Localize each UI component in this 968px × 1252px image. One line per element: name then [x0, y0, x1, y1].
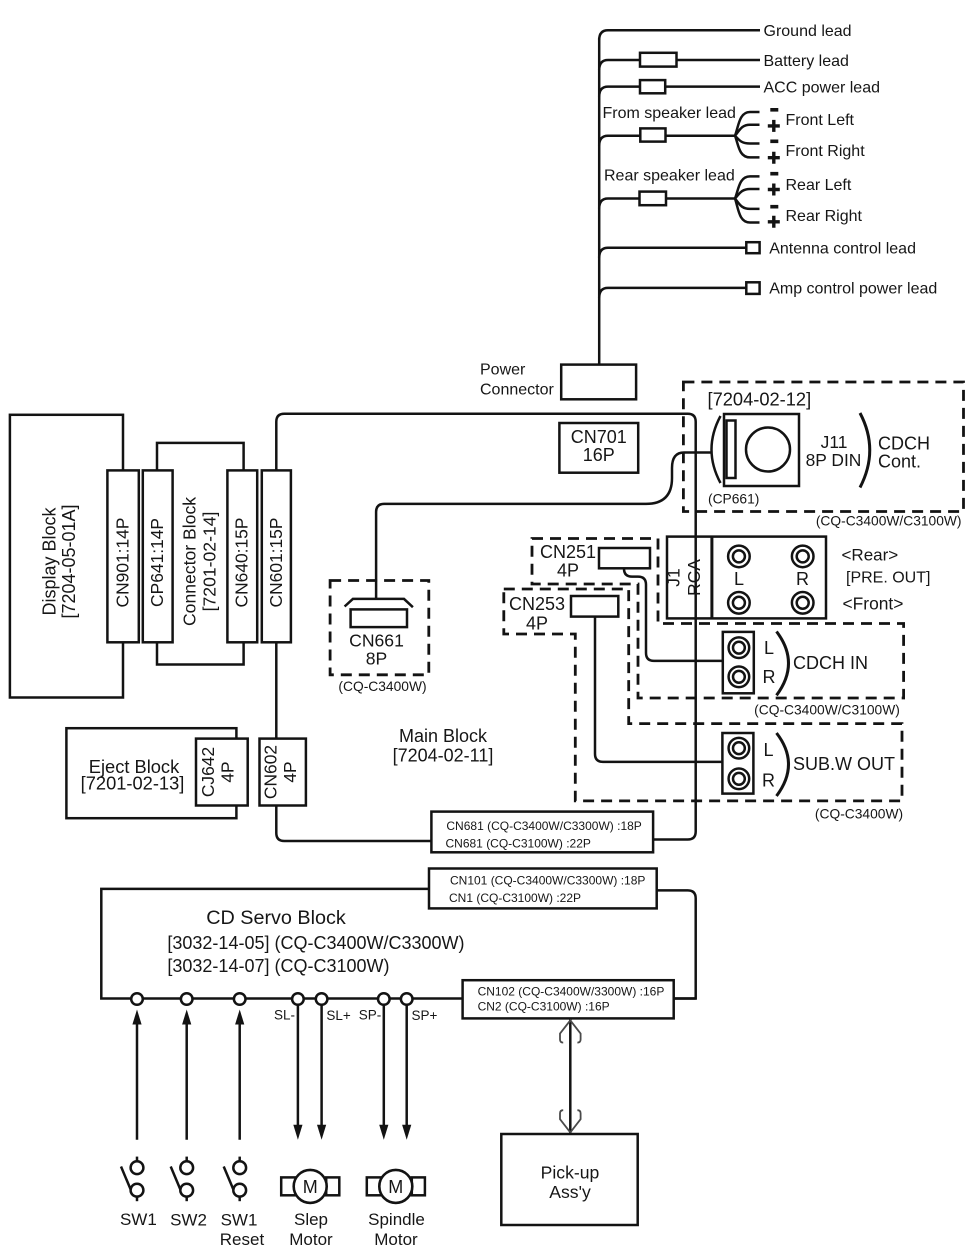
- switch SW2: [171, 1157, 193, 1202]
- svg-text:Battery lead: Battery lead: [764, 53, 849, 70]
- motor Spindle Motor: [367, 1177, 381, 1195]
- svg-text:[7201-02-13]: [7201-02-13]: [81, 773, 185, 794]
- svg-text:SP-: SP-: [359, 1007, 382, 1022]
- connector RCA jack front L: [728, 592, 750, 614]
- wire antenna control lead: [599, 248, 746, 258]
- svg-text:SW1: SW1: [221, 1210, 258, 1229]
- block Connector Block: [157, 443, 244, 665]
- svg-text:J1: J1: [664, 568, 684, 586]
- wire SL- arrow down: [297, 1005, 300, 1127]
- svg-text:Ground lead: Ground lead: [764, 23, 852, 40]
- connector CDCH IN jack R: [729, 667, 750, 688]
- svg-text:(CQ-C3400W/C3100W): (CQ-C3400W/C3100W): [816, 514, 962, 529]
- wire from speaker lead: [599, 136, 735, 146]
- svg-text:SW2: SW2: [170, 1210, 207, 1229]
- fuse battery lead: [640, 53, 677, 67]
- block Pick-up Ass'y: [501, 1134, 637, 1225]
- svg-text:16P: 16P: [583, 445, 615, 465]
- connector CN602 4P: [260, 739, 306, 806]
- svg-text:<Front>: <Front>: [843, 593, 904, 613]
- connector CDCH IN body: [723, 632, 754, 693]
- wire front fan branch 1: [735, 112, 760, 136]
- svg-text:CN1 (CQ-C3100W) :22P: CN1 (CQ-C3100W) :22P: [449, 891, 581, 905]
- svg-text:Antenna control lead: Antenna control lead: [769, 241, 916, 258]
- svg-text:CP641:14P: CP641:14P: [147, 518, 167, 607]
- wire ground lead: [599, 30, 760, 40]
- svg-text:CN661: CN661: [349, 631, 404, 651]
- connector amp control square: [746, 282, 759, 294]
- wire SL+ arrow down: [320, 1005, 323, 1127]
- wire J1 divider: [710, 537, 713, 619]
- svg-text:CN640:15P: CN640:15P: [232, 518, 252, 608]
- block CD Servo Block outline: [101, 889, 695, 999]
- svg-text:CN901:14P: CN901:14P: [113, 518, 133, 608]
- svg-text:Rear Left: Rear Left: [786, 177, 852, 194]
- plus mark front right: [768, 152, 780, 164]
- connector CJ642 4P: [196, 739, 248, 806]
- wire SW1 arrow up: [136, 1022, 139, 1140]
- svg-text:CDCH IN: CDCH IN: [793, 653, 868, 673]
- block 7204-02-12 dashed box: [683, 382, 963, 512]
- svg-text:8P DIN: 8P DIN: [806, 450, 862, 470]
- wire SW2 arrow up: [185, 1022, 188, 1140]
- plus mark rear left: [768, 184, 780, 196]
- connector CN661 hat symbol: [345, 599, 413, 607]
- svg-text:CN2 (CQ-C3100W) :16P: CN2 (CQ-C3100W) :16P: [478, 999, 610, 1013]
- arrowhead double top: [560, 1020, 581, 1042]
- svg-text:CN701: CN701: [571, 427, 627, 447]
- svg-text:CN601:15P: CN601:15P: [266, 518, 286, 608]
- svg-text:Display Block: Display Block: [40, 506, 60, 615]
- svg-text:<Rear>: <Rear>: [842, 546, 899, 565]
- switch SW1: [121, 1157, 143, 1202]
- svg-text:Motor: Motor: [289, 1230, 333, 1249]
- connector J11 left parenthesis: [712, 416, 721, 483]
- svg-text:From speaker lead: From speaker lead: [603, 105, 736, 122]
- wire vertical through J1 box: [694, 537, 697, 619]
- connector CP641:14P: [143, 470, 173, 642]
- switch SW1 Reset: [224, 1157, 246, 1202]
- fuse rear speaker lead: [640, 192, 667, 206]
- wire CN102 to Pick-up shaft: [569, 1020, 572, 1134]
- minus mark rear left: [770, 172, 778, 176]
- block Eject Block: [66, 728, 236, 818]
- svg-text:4P: 4P: [526, 614, 548, 634]
- wire CN602 to CN681: [276, 806, 431, 842]
- bracket right paren J11: [860, 413, 870, 488]
- svg-text:CDCH: CDCH: [878, 433, 930, 453]
- svg-text:SUB.W OUT: SUB.W OUT: [793, 754, 895, 774]
- connector CN661 body: [351, 609, 407, 627]
- connector CN640:15P: [227, 470, 257, 642]
- svg-text:SL-: SL-: [274, 1007, 295, 1022]
- arrowhead double bottom: [560, 1110, 581, 1132]
- svg-text:[7204-05-01A]: [7204-05-01A]: [59, 504, 79, 618]
- connector CN601:15P: [262, 470, 291, 642]
- node pin circles on servo bottom edge: [131, 993, 143, 1005]
- connector CN901:14P: [107, 470, 138, 642]
- svg-text:Pick-up: Pick-up: [541, 1163, 600, 1183]
- motor Slep Motor: [281, 1177, 295, 1195]
- wire front fan branch 4: [735, 136, 760, 158]
- wire CN101 right to servo right edge: [657, 890, 696, 998]
- wire power bus vertical: [598, 38, 601, 365]
- block CN251 + CDCH IN dashed outline: [532, 539, 904, 699]
- wire amp control power lead: [599, 288, 746, 298]
- svg-text:4P: 4P: [280, 761, 300, 782]
- svg-text:L: L: [734, 569, 744, 589]
- svg-text:Reset: Reset: [220, 1230, 265, 1249]
- svg-text:SP+: SP+: [411, 1008, 437, 1023]
- svg-text:CN102 (CQ-C3400W/3300W) :16P: CN102 (CQ-C3400W/3300W) :16P: [478, 985, 665, 999]
- svg-text:Connector: Connector: [480, 382, 554, 399]
- svg-text:Connector Block: Connector Block: [180, 497, 200, 626]
- connector CN102 box: [463, 980, 674, 1018]
- connector SUB.W OUT body: [722, 733, 753, 794]
- svg-text:Amp control power lead: Amp control power lead: [769, 281, 937, 298]
- connector SUB.W OUT jack L: [729, 738, 750, 759]
- svg-text:Cont.: Cont.: [878, 452, 921, 472]
- wire rear fan branch 1: [735, 176, 760, 198]
- connector J11 circle: [746, 428, 790, 472]
- svg-text:CD Servo Block: CD Servo Block: [206, 907, 346, 929]
- bracket CDCH IN paren: [777, 632, 789, 696]
- connector antenna control square: [746, 242, 759, 253]
- svg-text:Front Right: Front Right: [786, 143, 866, 160]
- wire SW1 Reset arrow up: [238, 1022, 241, 1140]
- connector SUB.W OUT jack R: [729, 769, 750, 790]
- minus mark front right: [770, 140, 778, 144]
- svg-text:[3032-14-07] (CQ-C3100W): [3032-14-07] (CQ-C3100W): [167, 956, 389, 976]
- fuse from speaker lead: [640, 128, 665, 141]
- svg-text:L: L: [764, 638, 774, 658]
- svg-text:(CQ-C3400W): (CQ-C3400W): [815, 807, 903, 822]
- minus mark front left: [770, 108, 778, 112]
- svg-text:SW1: SW1: [120, 1210, 157, 1229]
- svg-text:Main Block: Main Block: [399, 726, 488, 746]
- connector J1 RCA box: [667, 537, 826, 619]
- svg-text:Slep: Slep: [294, 1210, 328, 1229]
- svg-text:ACC power lead: ACC power lead: [764, 79, 881, 96]
- svg-text:R: R: [796, 569, 809, 589]
- svg-text:R: R: [763, 667, 776, 687]
- svg-text:[7204-02-11]: [7204-02-11]: [393, 746, 494, 766]
- svg-text:SL+: SL+: [326, 1008, 351, 1023]
- wire rear speaker lead: [599, 199, 735, 209]
- svg-text:(CQ-C3400W/C3100W): (CQ-C3400W/C3100W): [754, 703, 900, 718]
- svg-text:CN602: CN602: [261, 745, 281, 799]
- wire CN661 to J11 connector: [376, 453, 711, 599]
- svg-text:[7201-02-14]: [7201-02-14]: [200, 512, 220, 612]
- svg-text:Ass'y: Ass'y: [549, 1182, 591, 1202]
- svg-text:Front Left: Front Left: [786, 112, 855, 129]
- fuse ACC lead: [640, 80, 665, 93]
- connector CDCH IN jack L: [729, 637, 750, 658]
- wire front fan branch 3: [735, 136, 760, 144]
- connector RCA jack rear L: [728, 546, 750, 568]
- svg-text:RCA: RCA: [684, 559, 704, 596]
- svg-text:CN681 (CQ-C3100W) :22P: CN681 (CQ-C3100W) :22P: [446, 837, 591, 851]
- wire ACC power lead: [599, 87, 760, 97]
- svg-text:L: L: [763, 740, 773, 760]
- block Display Block: [10, 415, 123, 698]
- svg-text:4P: 4P: [218, 761, 238, 782]
- svg-text:Motor: Motor: [374, 1230, 418, 1249]
- wire CN601 to CN602: [275, 642, 278, 738]
- svg-text:[3032-14-05] (CQ-C3400W/C3300W: [3032-14-05] (CQ-C3400W/C3300W): [167, 933, 464, 953]
- connector power connector box: [561, 365, 636, 400]
- wire rear fan branch 4: [735, 199, 760, 223]
- svg-text:[7204-02-12]: [7204-02-12]: [708, 389, 812, 410]
- connector CN253 body: [571, 596, 618, 617]
- svg-text:M: M: [388, 1177, 403, 1197]
- wire front fan branch 2: [735, 125, 760, 136]
- wire SP- arrow down: [383, 1005, 386, 1127]
- svg-text:Power: Power: [480, 361, 526, 378]
- connector CN701 16P: [559, 423, 638, 473]
- bracket SUB.W OUT paren: [777, 733, 789, 796]
- svg-text:CN251: CN251: [540, 542, 596, 562]
- svg-text:Rear Right: Rear Right: [786, 208, 863, 225]
- svg-text:CN253: CN253: [509, 594, 565, 614]
- plus mark rear right: [768, 216, 780, 228]
- svg-text:M: M: [303, 1177, 318, 1197]
- wire CN253 to SUB.W OUT: [595, 617, 722, 762]
- svg-text:Rear speaker lead: Rear speaker lead: [604, 168, 735, 185]
- connector CN681 box: [431, 812, 653, 853]
- wire SP+ arrow down: [405, 1005, 408, 1127]
- svg-text:CJ642: CJ642: [198, 747, 218, 797]
- svg-text:[PRE. OUT]: [PRE. OUT]: [846, 570, 930, 587]
- svg-text:CN681 (CQ-C3400W/C3300W) :18P: CN681 (CQ-C3400W/C3300W) :18P: [446, 819, 641, 833]
- block CN253 + SUB.W OUT dashed outline: [504, 589, 902, 801]
- connector J11 inner bar: [727, 421, 736, 479]
- wire CN601 to top rail to CN681 right side: [276, 414, 695, 840]
- svg-text:J11: J11: [821, 432, 848, 452]
- connector RCA jack front R: [792, 592, 814, 614]
- svg-text:R: R: [762, 771, 775, 791]
- minus mark rear right: [770, 205, 778, 209]
- wire rear fan branch 2: [735, 189, 760, 199]
- connector CN101 box: [429, 869, 657, 909]
- wire CN251 to CDCH IN: [624, 568, 723, 661]
- plus mark front left: [768, 120, 780, 132]
- wire battery lead: [599, 60, 760, 70]
- svg-text:8P: 8P: [366, 649, 388, 669]
- connector CN661 dashed box: [330, 581, 429, 675]
- connector J11 body: [724, 414, 799, 486]
- svg-text:Spindle: Spindle: [368, 1210, 425, 1229]
- connector CN251 body: [599, 548, 650, 568]
- svg-text:(CP661): (CP661): [708, 492, 759, 507]
- connector RCA jack rear R: [792, 546, 814, 568]
- svg-text:4P: 4P: [557, 561, 579, 581]
- svg-text:(CQ-C3400W): (CQ-C3400W): [338, 679, 426, 694]
- svg-text:CN101 (CQ-C3400W/C3300W) :18P: CN101 (CQ-C3400W/C3300W) :18P: [450, 874, 645, 888]
- wire rear fan branch 3: [735, 199, 760, 209]
